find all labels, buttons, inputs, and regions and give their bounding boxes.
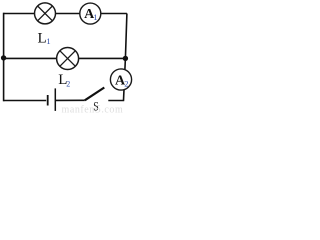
label L1 [38, 30, 51, 46]
switch S lever (open) [85, 88, 105, 101]
battery B1 negative plate (short) [47, 95, 49, 106]
lamp L1 (circle with cross) [35, 3, 56, 24]
ammeter A1 [80, 3, 101, 24]
svg-text:2: 2 [66, 79, 70, 88]
label A2 [115, 74, 128, 89]
wire switch contact to bottom right corner [108, 100, 124, 102]
node J1 (left junction) [1, 55, 6, 60]
lamp L2 (circle with cross) [57, 48, 79, 70]
label S [93, 101, 98, 115]
ammeter A2 [110, 69, 131, 90]
svg-text:manfen5.com: manfen5.com [62, 102, 124, 116]
label L2 [58, 72, 70, 88]
wire top (battery+ to L1 to A1 to right corner) [4, 13, 127, 15]
wire right vertical (top corner through node J2 and A2 to bottom corner) [124, 14, 127, 101]
node J2 (right junction) [123, 56, 128, 61]
wire battery to switch pivot [55, 99, 85, 101]
svg-text:1: 1 [93, 12, 97, 22]
wire bottom left (corner to battery) [4, 100, 47, 102]
wire left vertical [3, 13, 5, 102]
wire middle row (node J1 to L2 to node J2) [4, 57, 126, 59]
battery B1 positive plate (long) [54, 88, 56, 111]
svg-text:1: 1 [46, 36, 50, 46]
svg-text:L: L [38, 30, 47, 46]
watermark [62, 102, 124, 116]
label A1 [84, 7, 97, 22]
svg-text:2: 2 [124, 79, 128, 89]
